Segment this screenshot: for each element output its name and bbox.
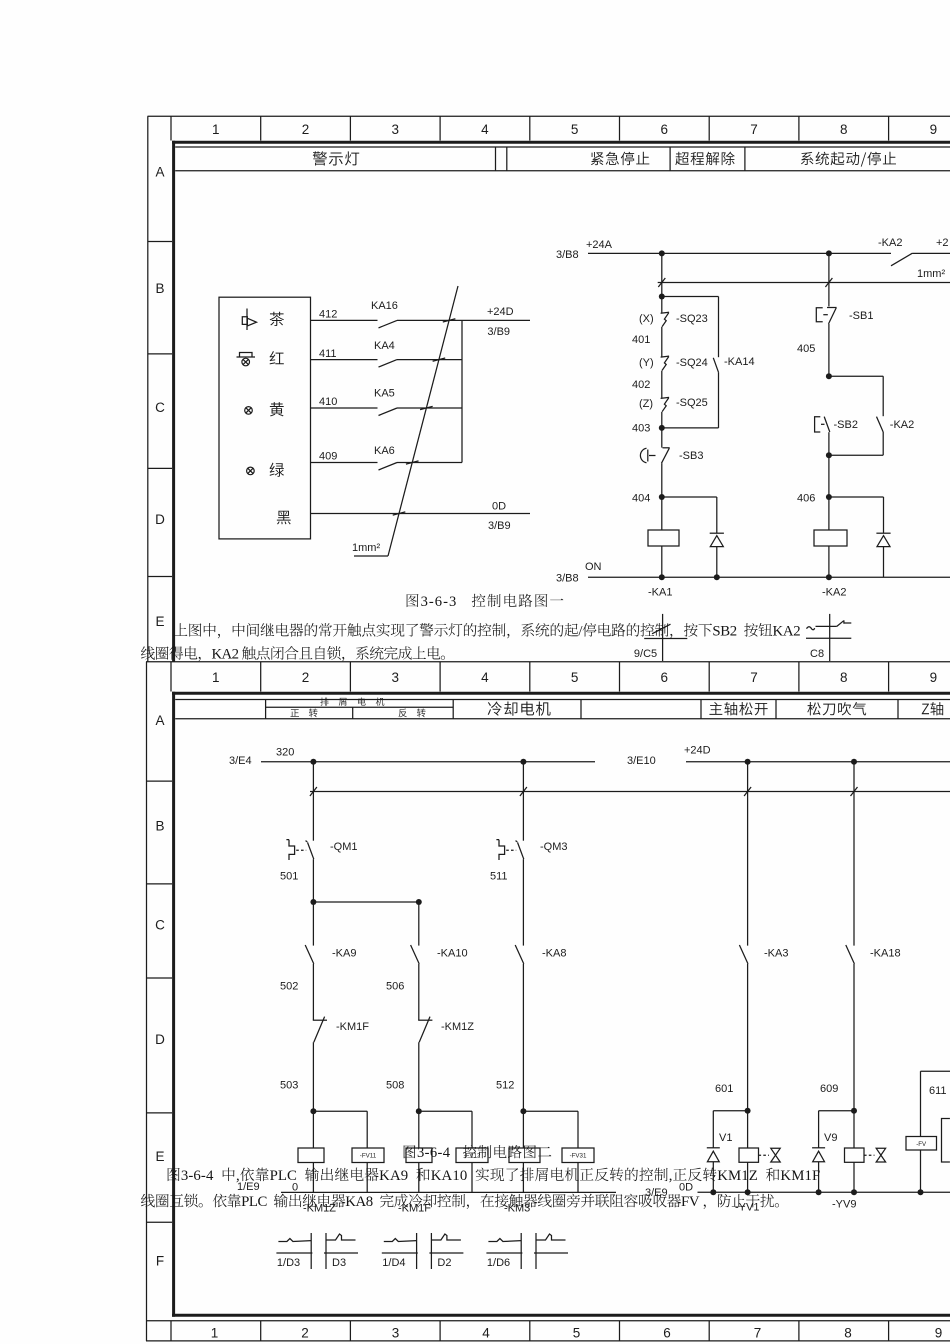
motor breaker -QM1 (286, 840, 294, 860)
svg-text:KA2: KA2 (211, 647, 238, 663)
valve symbol YV9 (876, 1148, 885, 1162)
svg-text:-QM1: -QM1 (330, 841, 358, 853)
svg-text:4: 4 (482, 1326, 490, 1341)
column 611 suppressor -FV (921, 1070, 950, 1072)
limit switch -SQ24 (Y) (661, 356, 670, 357)
wire 412 to bus (397, 319, 530, 321)
contact -KA9 (305, 945, 314, 964)
limit switch -SQ23 (X) (661, 312, 670, 313)
pushbutton -SB1 (NC) (828, 253, 830, 306)
svg-text:KA16: KA16 (371, 300, 398, 312)
green lamp symbol (247, 467, 255, 475)
svg-text:511: 511 (490, 871, 508, 883)
svg-text:V1: V1 (719, 1132, 732, 1144)
paragraph 1 line 2 (141, 646, 155, 660)
relay coil -KA1 (648, 530, 679, 546)
wire 411 (311, 359, 378, 361)
svg-text:C8: C8 (810, 648, 824, 660)
warning lamp box (219, 297, 311, 539)
svg-text:+24D: +24D (487, 306, 514, 318)
svg-text:3-6-3: 3-6-3 (421, 594, 458, 610)
svg-text:2: 2 (302, 670, 310, 685)
svg-text:-KA8: -KA8 (542, 948, 566, 960)
svg-text:-KA2: -KA2 (878, 237, 902, 249)
svg-text:609: 609 (820, 1083, 838, 1095)
sheet 2 row letter column (147, 780, 173, 782)
svg-text:9: 9 (930, 670, 938, 685)
wire parallel branch (829, 375, 883, 377)
svg-text:1mm²: 1mm² (917, 268, 945, 280)
svg-text:401: 401 (632, 334, 650, 346)
svg-text:9: 9 (930, 122, 938, 137)
sheet 1 title bar (175, 146, 950, 148)
contact KA4 (379, 360, 398, 368)
svg-text:5: 5 (571, 122, 579, 137)
svg-text:611: 611 (929, 1085, 947, 1097)
suppressor -FV12 (419, 1110, 472, 1112)
paragraph 1 line 1 (174, 623, 188, 636)
contact -KA3 (739, 945, 748, 964)
svg-text:-SB2: -SB2 (834, 419, 858, 431)
svg-text:2: 2 (301, 1326, 309, 1341)
wire 411 to bus (397, 359, 462, 361)
svg-text:3/E4: 3/E4 (229, 755, 252, 767)
svg-text:503: 503 (280, 1080, 298, 1092)
relay coil -KA2 (814, 530, 847, 546)
svg-text:C: C (155, 918, 165, 933)
valve coil -YV9 (845, 1148, 865, 1162)
svg-text:-KA9: -KA9 (332, 948, 356, 960)
partial device box at right edge (942, 1119, 950, 1163)
svg-text:1mm²: 1mm² (352, 542, 380, 554)
svg-text:PLC: PLC (241, 1194, 267, 1210)
valve symbol YV1 (771, 1148, 780, 1162)
svg-text:+2: +2 (936, 237, 949, 249)
svg-text:-SQ23: -SQ23 (676, 313, 708, 325)
title cell: overtravel release (675, 152, 734, 166)
svg-text:3-6-4: 3-6-4 (181, 1168, 214, 1184)
svg-text:KA8: KA8 (345, 1194, 373, 1210)
svg-text:ON: ON (585, 561, 602, 573)
node bus vertical (461, 320, 463, 462)
title cell: tool-release air blow (807, 702, 866, 715)
sheet 1 row letter column (148, 241, 172, 243)
svg-text:1: 1 (212, 122, 220, 137)
svg-text:B: B (155, 281, 164, 296)
title cell: warning lights (313, 151, 360, 165)
svg-text:502: 502 (280, 981, 298, 993)
svg-text:6: 6 (661, 670, 669, 685)
svg-text:409: 409 (319, 451, 337, 463)
svg-text:D2: D2 (437, 1257, 451, 1269)
limit switch -SQ25 (Z) (661, 397, 670, 398)
contact -KM1Z (NC interlock) (418, 1019, 432, 1021)
svg-text:-KM1F: -KM1F (336, 1021, 369, 1033)
svg-text:501: 501 (280, 871, 298, 883)
column KM3: wire from 320 rail (522, 762, 524, 841)
sheet 2 thick frame (172, 692, 950, 695)
pushbutton -SB3 (NC, mushroom) (640, 448, 646, 462)
svg-text:-KM1Z: -KM1Z (303, 1203, 336, 1215)
contactor coil -KM1F (406, 1148, 432, 1163)
svg-text:-SQ25: -SQ25 (676, 397, 708, 409)
svg-text:-SQ24: -SQ24 (676, 357, 708, 369)
svg-text:,: , (669, 1168, 673, 1184)
svg-text:3/E10: 3/E10 (627, 755, 656, 767)
svg-text:-SB1: -SB1 (849, 310, 873, 322)
svg-text:3/B8: 3/B8 (556, 249, 579, 261)
paragraph 2 line 1 (168, 1168, 180, 1181)
wire 0D (black) (311, 513, 531, 515)
svg-text:FV: FV (681, 1194, 700, 1210)
sheet reference C8 stub with -KA2 contact (829, 614, 831, 661)
contact -KA2 (self hold) (877, 417, 884, 432)
svg-text:7: 7 (754, 1326, 762, 1341)
svg-text:508: 508 (386, 1080, 404, 1092)
lamp color labels (270, 312, 284, 326)
svg-text:1/D6: 1/D6 (487, 1257, 510, 1269)
contact -KA10 (411, 945, 420, 964)
svg-text:320: 320 (276, 747, 294, 759)
diode D1 (parallel to KA1) (662, 496, 717, 498)
svg-text:7: 7 (750, 670, 758, 685)
svg-text:-QM3: -QM3 (540, 841, 568, 853)
svg-text:-KA3: -KA3 (764, 948, 788, 960)
valve coil -YV1 (739, 1148, 759, 1162)
svg-text:-KA1: -KA1 (648, 587, 672, 599)
sheet 2 bottom ruler (146, 1320, 950, 1322)
wire 409 (311, 462, 378, 464)
contact -KM1F (NC interlock) (313, 1019, 327, 1021)
svg-text:3-6-4: 3-6-4 (417, 1145, 451, 1161)
wire 410 (311, 407, 378, 409)
svg-text:9/C5: 9/C5 (634, 648, 657, 660)
svg-text:412: 412 (319, 309, 337, 321)
wire branch X (661, 253, 663, 312)
svg-text:SB2: SB2 (712, 624, 737, 640)
second wire 1mm2 (658, 282, 950, 284)
svg-text:E: E (155, 1149, 164, 1164)
svg-text:-YV9: -YV9 (832, 1199, 856, 1211)
title cell: cooling motor (488, 701, 551, 715)
svg-text:-KA14: -KA14 (724, 356, 755, 368)
svg-text:3: 3 (391, 670, 399, 685)
title cell: Z axis (cut) (922, 702, 943, 715)
contactor coil -KM1Z (298, 1148, 324, 1163)
sheet 2 title bar (175, 699, 950, 701)
svg-text:601: 601 (715, 1083, 733, 1095)
svg-text:402: 402 (632, 379, 650, 391)
svg-text:A: A (155, 713, 164, 728)
svg-text:1/D3: 1/D3 (277, 1257, 300, 1269)
svg-text:,: , (236, 1168, 240, 1184)
svg-text:-KM3: -KM3 (504, 1203, 530, 1215)
svg-text:4: 4 (481, 670, 489, 685)
svg-text:4: 4 (481, 122, 489, 137)
figure caption 2 (404, 1145, 416, 1158)
svg-text:E: E (155, 614, 164, 629)
suppressor -FV11 (313, 1110, 367, 1112)
motor breaker -QM3 (496, 840, 504, 860)
svg-text:7: 7 (750, 122, 758, 137)
svg-text:406: 406 (797, 493, 815, 505)
wire 412 (311, 319, 378, 321)
svg-text:410: 410 (319, 396, 337, 408)
svg-text:3/B9: 3/B9 (488, 520, 511, 532)
svg-text:-FV: -FV (916, 1141, 927, 1148)
column YV1: wire from +24D rail (747, 762, 749, 946)
title cell: spindle unclamp (709, 702, 767, 715)
contact -KA14 bypass branch (662, 296, 719, 298)
svg-text:3: 3 (391, 122, 399, 137)
svg-text:KA9: KA9 (379, 1168, 408, 1184)
contact -KA2 on top rail (891, 253, 912, 266)
svg-text:5: 5 (571, 670, 579, 685)
svg-text:411: 411 (319, 348, 337, 360)
svg-text:-KM1Z: -KM1Z (441, 1021, 474, 1033)
svg-text:A: A (155, 165, 164, 180)
PLC reference contacts 1/D3 D3 (276, 1252, 312, 1254)
diode V9 (819, 1110, 854, 1112)
svg-text:-KA10: -KA10 (437, 948, 468, 960)
svg-text:8: 8 (844, 1326, 852, 1341)
svg-text:KA2: KA2 (773, 624, 801, 640)
paragraph 2 line 2 (141, 1194, 155, 1208)
suppressor -FV31 (523, 1110, 578, 1112)
svg-text:-KA2: -KA2 (822, 587, 846, 599)
diode V1 (713, 1110, 747, 1112)
svg-text:F: F (156, 1253, 164, 1268)
svg-text:3: 3 (392, 1326, 400, 1341)
svg-text:1: 1 (212, 670, 220, 685)
svg-text:-FV31: -FV31 (570, 1153, 587, 1160)
column KM1F: wire from link node (418, 902, 420, 946)
svg-text:(Z): (Z) (639, 398, 653, 410)
svg-text:KM1F: KM1F (780, 1168, 820, 1184)
svg-text:KA10: KA10 (431, 1168, 468, 1184)
PLC reference contacts 1/D6 (486, 1252, 522, 1254)
pushbutton -SB2 (NO) (815, 417, 821, 432)
svg-text:D3: D3 (332, 1257, 346, 1269)
column KM1Z: wire from 320 rail (312, 762, 314, 841)
sheet 2 column ruler (170, 662, 172, 692)
figure caption 1 (407, 594, 419, 607)
svg-text:1/D4: 1/D4 (382, 1257, 405, 1269)
yellow lamp symbol (245, 407, 253, 415)
contact KA6 (379, 463, 398, 471)
svg-text:+24A: +24A (586, 239, 613, 251)
svg-text:1/E9: 1/E9 (237, 1181, 260, 1193)
svg-text:-KA18: -KA18 (870, 948, 901, 960)
svg-text:KM1Z: KM1Z (717, 1168, 758, 1184)
svg-text:PLC: PLC (270, 1168, 297, 1184)
title cell: system start/stop (801, 152, 896, 167)
svg-text:0D: 0D (492, 501, 506, 513)
wire link to KA10 column (313, 901, 418, 903)
contact -KA8 (515, 945, 524, 964)
svg-text:(X): (X) (639, 313, 654, 325)
svg-text:-SB3: -SB3 (679, 450, 703, 462)
buzzer symbol (246, 309, 248, 331)
diode D2 (parallel to KA2) (829, 496, 884, 498)
svg-text:5: 5 (573, 1326, 581, 1341)
svg-text:B: B (155, 818, 164, 833)
svg-text:0D: 0D (679, 1182, 693, 1194)
svg-text:512: 512 (496, 1080, 514, 1092)
contact KA5 (379, 408, 398, 416)
svg-text:3/B9: 3/B9 (487, 326, 510, 338)
title cell: chip-removal motor (nested) (266, 706, 454, 708)
contact KA16 (379, 320, 398, 328)
svg-text:3/B8: 3/B8 (556, 573, 579, 585)
sheet 1 thick frame (172, 141, 950, 144)
second wire marker line (310, 791, 950, 793)
svg-text:KA5: KA5 (374, 388, 395, 400)
svg-text:506: 506 (386, 981, 404, 993)
svg-text:KA4: KA4 (374, 340, 395, 352)
PLC reference contacts 1/D4 D2 (382, 1252, 418, 1254)
red lamp symbol (240, 353, 253, 358)
svg-text:9: 9 (935, 1326, 943, 1341)
sheet 1 column ruler (170, 116, 172, 140)
wire 410 to bus (397, 407, 462, 409)
svg-text:8: 8 (840, 670, 848, 685)
column YV9: wire from +24D rail (853, 762, 855, 946)
svg-text:(Y): (Y) (639, 357, 654, 369)
sheet 2 outer border (146, 661, 950, 663)
svg-text:V9: V9 (824, 1132, 837, 1144)
svg-text:-FV11: -FV11 (360, 1153, 377, 1160)
svg-text:1: 1 (211, 1326, 219, 1341)
contactor coil -KM3 (509, 1148, 540, 1163)
svg-text:405: 405 (797, 343, 815, 355)
svg-text:2: 2 (302, 122, 310, 137)
title cell: emergency stop (591, 152, 649, 165)
svg-text:403: 403 (632, 423, 650, 435)
svg-text:KA6: KA6 (374, 445, 395, 457)
svg-text:6: 6 (661, 122, 669, 137)
wire 409 to bus (397, 462, 462, 464)
svg-text:404: 404 (632, 493, 650, 505)
cable marker diagonal 1mm2 (388, 286, 458, 556)
svg-text:+24D: +24D (684, 745, 711, 757)
sheet reference 9/C5 stub (662, 614, 664, 661)
svg-text:-KA2: -KA2 (890, 419, 914, 431)
sheet 1 outer border (148, 115, 950, 117)
svg-text:6: 6 (663, 1326, 671, 1341)
svg-text:D: D (155, 512, 165, 527)
svg-text:C: C (155, 400, 165, 415)
svg-text:8: 8 (840, 122, 848, 137)
svg-text:D: D (155, 1032, 165, 1047)
contact -KA18 (846, 945, 855, 964)
